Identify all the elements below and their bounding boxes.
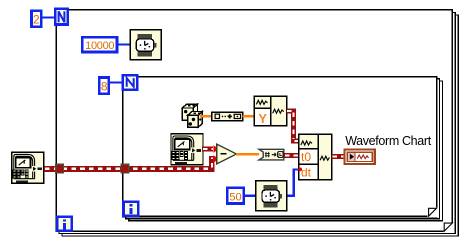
maroon dashed wire: DAQ out across tunnels [44,166,212,172]
constant 50 [227,188,243,204]
red arrow into subtract upper input [213,145,219,153]
inner loop iteration terminal i [124,202,139,216]
svg-text:2: 2 [33,12,40,26]
orange wire: dice to append icon [200,115,212,117]
inner loop count terminal N [123,75,137,89]
build waveform node (t0 dt) [299,134,332,179]
outer loop count terminal N [55,9,67,25]
wire blue: constant 2 to outer N terminal [42,16,56,18]
maroon dashed wire: express out to subtract upper input [202,147,213,152]
orange wire: append icon to build waveform Y input [243,115,255,117]
wait ms timer (top) [130,30,161,60]
DAQ assistant express VI icon (left of loops) [12,152,44,183]
red arrow into subtract lower input [213,155,219,163]
svg-text:dt: dt [301,166,312,180]
maroon dashed wire: Y node out, down into build waveform top input [287,109,300,144]
append array icon [212,112,243,121]
tunnel on outer loop left border [56,164,64,173]
orange wire: subtract out to time stamp conversion [236,153,259,155]
wait until next ms multiple timer (bottom) [256,181,287,211]
to time stamp conversion [259,149,284,160]
blue wire: 50 to wait timer [244,195,256,197]
blue wire: wait timer out up to dt input [287,169,298,195]
build waveform node (Y) [254,96,286,126]
maroon wire riser to subtract lower input [209,156,214,172]
outer for loop border (stacked frames) [56,10,458,236]
outer loop iteration terminal i [57,217,71,231]
subtract function [217,144,237,164]
maroon dashed wire: build waveform out to chart terminal [332,154,345,159]
dice random number icon [182,104,202,127]
svg-text:Waveform Chart: Waveform Chart [345,134,432,148]
constant 10000 [82,37,117,52]
svg-text:10000: 10000 [85,40,114,52]
waveform chart indicator terminal [344,150,374,164]
constant 2 [32,11,42,27]
coercion dot on dt input [298,168,302,172]
constant 8 [99,78,109,94]
svg-text:Y: Y [258,111,267,126]
svg-text:t0: t0 [301,150,311,164]
inner for loop border (stacked frames) [123,77,443,221]
wire blue: constant 8 to inner N terminal [110,81,123,83]
tunnel on inner loop left border [121,164,129,173]
express VI icon (inside inner loop) [171,134,203,165]
wire blue: constant 10000 to wait timer [118,43,130,45]
maroon dashed wire: conversion out to t0 input [284,153,299,158]
svg-text:50: 50 [229,191,241,203]
svg-text:8: 8 [101,79,108,93]
